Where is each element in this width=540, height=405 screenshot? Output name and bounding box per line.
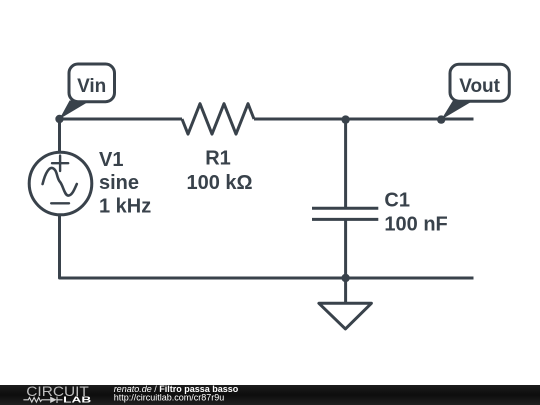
CircuitLab logo resistor+diode glyph (23, 397, 62, 403)
svg-text:100 nF: 100 nF (384, 214, 447, 236)
ground stub wire (344, 278, 347, 303)
junction dot above C1 (341, 115, 349, 123)
V1 sine wave (43, 168, 77, 196)
wire: top junction down to capacitor (344, 119, 347, 208)
Vout flag box (450, 64, 509, 101)
Vin flag box (69, 64, 115, 102)
ground triangle (319, 303, 372, 329)
Vout flag pointer (441, 100, 474, 120)
CircuitLab logo diode triangle (50, 397, 57, 403)
junction dot bottom rail (341, 274, 349, 282)
wire top middle: resistor to Vout node (254, 118, 441, 121)
node dot Vin (55, 115, 63, 123)
wire top left: Vin node to resistor (60, 118, 183, 121)
wire top right stub after Vout node (441, 118, 473, 121)
svg-text:sine: sine (99, 172, 139, 194)
Vin flag pointer (60, 101, 91, 120)
wire left: Vin node down to V1 top (58, 119, 61, 152)
svg-text:Vout: Vout (459, 76, 500, 97)
node dot Vout (437, 115, 445, 123)
svg-text:LAB: LAB (63, 395, 91, 404)
svg-text:http://circuitlab.com/cr87r9u: http://circuitlab.com/cr87r9u (114, 392, 225, 402)
wire bottom right: junction to right end (346, 277, 474, 280)
svg-text:R1: R1 (205, 147, 231, 169)
svg-text:1 kHz: 1 kHz (99, 196, 151, 218)
resistor R1 zigzag (182, 104, 254, 134)
wire left: V1 bottom down to bottom rail (60, 215, 346, 278)
svg-text:Vin: Vin (77, 76, 106, 97)
wire: capacitor bottom to bottom rail (344, 219, 347, 278)
svg-text:C1: C1 (384, 189, 410, 211)
svg-text:100 kΩ: 100 kΩ (186, 172, 252, 194)
svg-text:V1: V1 (99, 149, 123, 171)
capacitor C1 plates (312, 208, 378, 219)
V1 minus sign (51, 202, 69, 204)
voltage source V1 circle (29, 152, 92, 215)
V1 plus sign (52, 156, 68, 171)
